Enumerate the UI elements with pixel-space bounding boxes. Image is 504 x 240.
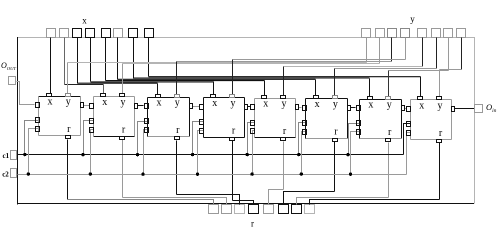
port x2 square bbox=[73, 29, 82, 38]
port r5 square bbox=[279, 205, 289, 214]
wire cell2 r output to port r1 bbox=[122, 140, 124, 198]
cell U1 pin carry-out bbox=[81, 103, 84, 108]
cell U4 pin carry-in bbox=[200, 105, 204, 110]
svg-text:x: x bbox=[157, 98, 162, 109]
wire c2 to cell5 bbox=[253, 131, 255, 175]
cell U5 pin c1 bbox=[251, 121, 255, 126]
cell U2 pin r bbox=[120, 137, 125, 140]
wire cell7 carry to cell8 bbox=[404, 108, 406, 110]
wire c1 to cell4 bbox=[193, 122, 204, 155]
wire x5 to cell6 x pin bbox=[117, 38, 119, 80]
cell U6 pin x bbox=[314, 96, 319, 99]
svg-text:r: r bbox=[251, 219, 254, 229]
wire c1 to cell8 bbox=[404, 124, 411, 155]
port r7 square bbox=[305, 205, 315, 214]
wire y2 to cell3 y pin bbox=[391, 38, 393, 62]
port y6 square bbox=[444, 29, 453, 38]
port y5 square bbox=[432, 29, 441, 38]
cell U4 pin c1 bbox=[200, 120, 204, 125]
port x5 square bbox=[114, 29, 123, 38]
junction c2 cell2 bbox=[89, 172, 92, 175]
wire c1 to cell7 bbox=[349, 124, 360, 155]
wire c2 to cell1 bbox=[29, 129, 39, 175]
wire cell4 r output to port r3 bbox=[232, 141, 234, 201]
cell U5 pin x bbox=[262, 96, 267, 99]
port x0 square bbox=[47, 29, 56, 38]
wire c1 bus bbox=[18, 154, 404, 156]
wire c2 to cell2 bbox=[91, 130, 94, 175]
junction c2 cell6 bbox=[300, 172, 303, 175]
cell U1 pin r bbox=[66, 136, 71, 139]
cell U2 pin x bbox=[101, 94, 106, 97]
wire cell6 carry to cell7 bbox=[350, 107, 355, 109]
port r2 square bbox=[235, 205, 245, 214]
svg-text:y: y bbox=[387, 100, 392, 111]
junction c1 cell5 bbox=[246, 153, 249, 156]
wire c1 to cell1 bbox=[25, 121, 39, 155]
cell U7 pin carry-in bbox=[357, 106, 361, 111]
cell U3 pin y bbox=[175, 95, 180, 98]
svg-text:x: x bbox=[263, 99, 268, 110]
port r3 square bbox=[249, 205, 259, 214]
cell U2 box bbox=[94, 97, 135, 137]
cell U5 pin carry-out bbox=[296, 105, 299, 110]
cell U5 pin carry-in bbox=[251, 105, 255, 110]
junction c2 cell5 bbox=[250, 172, 253, 175]
svg-text:y: y bbox=[231, 98, 236, 109]
cell U8 pin c2 bbox=[407, 131, 411, 136]
cell U6 pin carry-in bbox=[303, 106, 307, 111]
wire cell3 r output to port r2 bbox=[176, 141, 178, 195]
wire x4 to cell5 x pin bbox=[105, 38, 107, 81]
svg-text:x: x bbox=[315, 99, 320, 110]
wire x1 to cell2 x pin bbox=[64, 38, 66, 85]
svg-text:y: y bbox=[410, 14, 415, 24]
cell U8 pin y bbox=[437, 97, 442, 100]
junction c1 cell6 bbox=[297, 153, 300, 156]
wire y4 to cell5 y pin bbox=[422, 38, 424, 67]
cell U4 box bbox=[204, 98, 245, 138]
port y2 square bbox=[388, 29, 397, 38]
wire cell7 r output to port r6 bbox=[388, 143, 390, 198]
cell U3 box bbox=[148, 98, 190, 137]
cell U4 pin y bbox=[230, 95, 235, 98]
svg-text:y: y bbox=[175, 98, 180, 109]
cell U5 pin c2 bbox=[251, 129, 255, 134]
cell U2 pin c1 bbox=[90, 119, 94, 124]
cell U7 pin r bbox=[386, 139, 391, 142]
cell U5 box bbox=[255, 99, 296, 138]
port y4 square bbox=[418, 29, 427, 38]
cell U3 pin c1 bbox=[145, 119, 149, 124]
wire x0 to cell1 x pin bbox=[50, 38, 52, 94]
svg-text:x: x bbox=[82, 16, 87, 26]
cell U3 pin carry-out bbox=[190, 104, 193, 109]
cell U4 pin r bbox=[230, 138, 235, 141]
port O_in square bbox=[475, 105, 483, 113]
wire x6 to cell7 x pin bbox=[133, 38, 135, 79]
port x4 square bbox=[102, 29, 111, 38]
wire c2 to cell4 bbox=[198, 131, 204, 175]
wire c1 to cell6 bbox=[299, 123, 306, 155]
wire y1 to cell2 y pin bbox=[379, 38, 381, 64]
port r1 square bbox=[222, 205, 232, 214]
cell U7 box bbox=[360, 100, 402, 139]
wire cell8 to O_in bbox=[455, 108, 474, 110]
junction c1 cell4 bbox=[191, 153, 194, 156]
svg-text:c2: c2 bbox=[2, 171, 9, 179]
cell U6 pin c2 bbox=[303, 130, 307, 135]
cell U1 pin y bbox=[66, 94, 71, 97]
cell U8 pin r bbox=[437, 140, 442, 143]
junction c2 cell1 bbox=[27, 172, 30, 175]
wire y5 to cell6 y pin bbox=[436, 38, 438, 69]
wire cell4 carry to cell5 bbox=[248, 106, 250, 108]
wire y7 to cell8 y pin bbox=[461, 38, 463, 70]
port x7 square bbox=[145, 29, 154, 38]
cell U3 pin carry-in bbox=[145, 104, 149, 109]
cell U2 pin carry-out bbox=[135, 104, 138, 109]
cell U1 pin x bbox=[47, 94, 52, 97]
port y0 square bbox=[362, 29, 371, 38]
svg-text:y: y bbox=[282, 99, 287, 110]
cell U2 pin y bbox=[120, 94, 125, 97]
cell U1 pin carry-in bbox=[36, 103, 40, 108]
port x6 square bbox=[129, 29, 138, 38]
port r4 square bbox=[264, 205, 274, 214]
wire module bottom boundary bbox=[18, 203, 475, 205]
svg-text:c1: c1 bbox=[2, 152, 9, 160]
cell U7 pin c2 bbox=[357, 130, 361, 135]
port c2 square bbox=[11, 169, 17, 178]
svg-text:x: x bbox=[212, 98, 217, 109]
cell U3 pin r bbox=[175, 137, 180, 140]
wire c2 to cell3 bbox=[144, 130, 148, 175]
cell U5 pin y bbox=[281, 96, 286, 99]
wire module top boundary bbox=[18, 37, 475, 39]
port y7 square bbox=[457, 29, 466, 38]
svg-text:Oin: Oin bbox=[486, 102, 497, 114]
wire y0 to cell1 y pin bbox=[366, 38, 368, 63]
port O_out square bbox=[9, 77, 16, 85]
cell U7 pin carry-out bbox=[402, 106, 405, 111]
wire c1 to cell5 bbox=[248, 123, 255, 155]
cell U6 pin y bbox=[333, 96, 338, 99]
svg-text:x: x bbox=[419, 100, 424, 111]
svg-text:y: y bbox=[66, 97, 71, 108]
junction c1 cell3 bbox=[136, 153, 139, 156]
wire cell6 r output to port r5 bbox=[334, 142, 336, 192]
cell U5 pin r bbox=[281, 138, 286, 141]
svg-text:y: y bbox=[438, 100, 443, 111]
port x1 square bbox=[60, 29, 69, 38]
cell U3 pin c2 bbox=[145, 128, 149, 133]
junction c1 cell2 bbox=[81, 153, 84, 156]
junction c2 cell4 bbox=[196, 172, 199, 175]
junction c1 cell1 bbox=[23, 153, 26, 156]
cell U1 box bbox=[39, 97, 81, 136]
wire cell2 carry to cell3 bbox=[138, 105, 144, 107]
wire cell5 carry to cell6 bbox=[299, 107, 302, 109]
junction c2 cell3 bbox=[141, 172, 144, 175]
wire cell1 carry to cell2 bbox=[83, 105, 89, 107]
cell U8 pin carry-out bbox=[452, 107, 455, 112]
wire c1 to cell2 bbox=[84, 121, 94, 155]
wire x7 to cell8 x pin bbox=[148, 38, 150, 77]
wire O_out to cell1 bbox=[17, 82, 35, 105]
cell U1 pin c2 bbox=[36, 127, 40, 132]
wire c2 to cell7 bbox=[351, 132, 360, 175]
cell U6 pin c1 bbox=[303, 121, 307, 126]
port y3 square bbox=[401, 29, 410, 38]
port r0 square bbox=[209, 205, 219, 214]
wire module left boundary bbox=[17, 37, 19, 204]
port r6 square bbox=[292, 205, 302, 214]
port y1 square bbox=[376, 29, 385, 38]
svg-text:y: y bbox=[121, 97, 126, 108]
cell U3 pin x bbox=[156, 95, 161, 98]
wire cell1 r output to port r0 bbox=[67, 140, 69, 200]
cell U8 pin x bbox=[418, 97, 423, 100]
cell U6 pin carry-out bbox=[348, 106, 351, 111]
wire x2 to cell3 x pin bbox=[77, 38, 79, 84]
wire cell3 carry to cell4 bbox=[192, 106, 199, 108]
wire c1 to cell3 bbox=[138, 122, 148, 155]
cell U2 pin c2 bbox=[90, 128, 94, 133]
port c1 square bbox=[11, 151, 17, 160]
cell U1 pin c1 bbox=[36, 118, 40, 123]
wire cell8 r output to port r7 bbox=[439, 143, 441, 200]
wire x3 to cell4 x pin bbox=[90, 38, 92, 82]
wire c2 bus bbox=[18, 174, 407, 176]
cell U7 pin x bbox=[368, 97, 373, 100]
svg-text:OOUT: OOUT bbox=[1, 61, 16, 71]
svg-text:x: x bbox=[368, 100, 373, 111]
wire cell5 r output to port r4 bbox=[283, 142, 285, 190]
wire c2 to cell6 bbox=[302, 132, 306, 175]
cell U8 box bbox=[411, 100, 452, 140]
cell U7 pin c1 bbox=[357, 121, 361, 126]
wire module right boundary bbox=[474, 37, 476, 203]
cell U6 box bbox=[306, 99, 348, 139]
junction c1 cell7 bbox=[346, 153, 349, 156]
junction c2 cell7 bbox=[349, 172, 352, 175]
cell U4 pin carry-out bbox=[245, 105, 248, 110]
cell U4 pin c2 bbox=[200, 129, 204, 134]
cell U2 pin carry-in bbox=[90, 104, 94, 109]
cell U4 pin x bbox=[211, 95, 216, 98]
cell U8 pin c1 bbox=[407, 122, 411, 127]
svg-text:x: x bbox=[102, 97, 107, 108]
cell U8 pin carry-in bbox=[407, 107, 411, 112]
svg-text:y: y bbox=[333, 99, 338, 110]
svg-text:x: x bbox=[48, 97, 53, 108]
wire y3 to cell4 y pin bbox=[405, 38, 407, 60]
port x3 square bbox=[86, 29, 95, 38]
cell U6 pin r bbox=[333, 139, 338, 142]
cell U7 pin y bbox=[386, 97, 391, 100]
wire c2 to cell8 bbox=[407, 133, 411, 175]
wire y6 to cell7 y pin bbox=[448, 38, 450, 71]
